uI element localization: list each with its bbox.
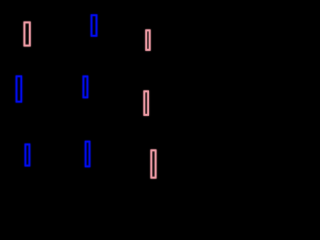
resistor R2: [92, 15, 97, 36]
resistor R4: [17, 76, 22, 101]
resistor R7: [25, 144, 29, 165]
resistor R9: [151, 150, 155, 177]
resistor R8: [86, 142, 90, 167]
resistor R3: [146, 30, 150, 50]
resistor R1: [24, 22, 29, 45]
resistor R6: [144, 91, 148, 115]
resistor R5: [83, 76, 87, 97]
